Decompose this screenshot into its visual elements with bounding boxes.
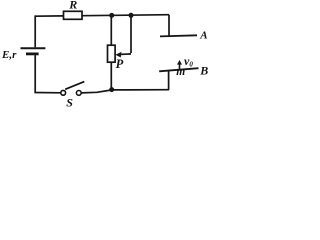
svg-text:0: 0: [189, 60, 193, 68]
svg-text:E,r: E,r: [1, 49, 17, 61]
svg-text:S: S: [66, 96, 73, 109]
svg-text:B: B: [199, 64, 208, 78]
svg-text:A: A: [199, 30, 207, 42]
svg-text:R: R: [68, 0, 77, 12]
svg-text:P: P: [116, 57, 124, 71]
